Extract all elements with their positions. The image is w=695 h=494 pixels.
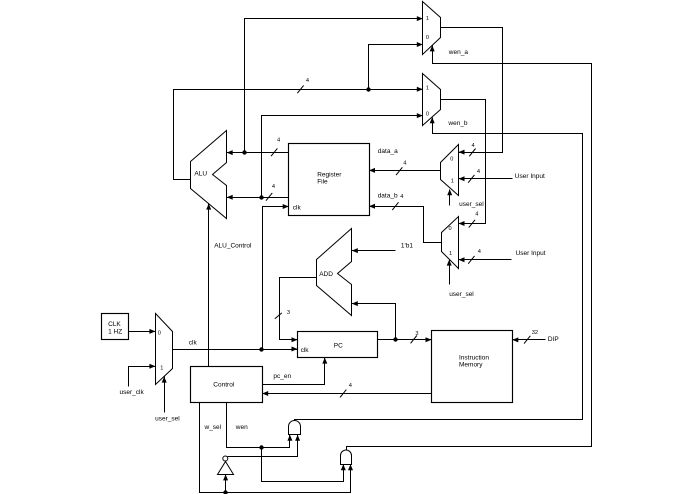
svg-text:user_sel: user_sel — [155, 416, 180, 423]
svg-text:1: 1 — [426, 16, 429, 22]
svg-text:1 HZ: 1 HZ — [108, 328, 122, 335]
label w_sel — [204, 424, 222, 431]
wire constant 1'b1 into ADD — [352, 248, 396, 253]
svg-text:0: 0 — [426, 112, 429, 118]
svg-text:4: 4 — [277, 137, 280, 143]
svg-text:user_sel: user_sel — [449, 291, 474, 298]
svg-text:Instruction: Instruction — [459, 355, 489, 362]
svg-text:data_b: data_b — [378, 192, 398, 199]
svg-text:0: 0 — [450, 157, 453, 163]
svg-text:pc_en: pc_en — [273, 373, 291, 380]
wire user_sel select stub into user mux B — [447, 260, 452, 285]
NOT gate (inverter on w_sel) — [218, 456, 234, 475]
ADD adder unit — [317, 229, 352, 316]
svg-text:User Input: User Input — [515, 173, 545, 180]
wire w_sel branch into NOT gate — [223, 474, 228, 492]
svg-text:4: 4 — [349, 383, 352, 389]
label data_a — [378, 148, 398, 155]
wire wen_a mux output to user mux A input 0 — [441, 28, 503, 157]
svg-text:32: 32 — [532, 330, 538, 336]
mux user-select B — [442, 217, 459, 269]
wire user_clk stub to clk mux input 1 — [129, 364, 156, 387]
wire DIP input to Instruction Memory — [512, 330, 545, 344]
wire user_sel select stub into user mux A — [447, 189, 452, 205]
svg-text:w_sel: w_sel — [204, 424, 222, 431]
label user_sel B — [449, 291, 474, 298]
svg-text:4: 4 — [272, 184, 275, 190]
wire branch to wen_a mux input 0 — [369, 42, 423, 90]
AND gate G1 (wen & ~w_sel) — [289, 421, 301, 435]
svg-text:3: 3 — [287, 310, 290, 316]
wire user mux B output to Register File data_b — [369, 194, 442, 243]
svg-text:ALU: ALU — [194, 171, 207, 178]
svg-text:DIP: DIP — [548, 336, 559, 343]
svg-text:File: File — [317, 178, 328, 185]
label user_clk — [120, 389, 145, 396]
label User Input A — [515, 173, 545, 180]
mux clk select — [156, 314, 173, 385]
label pc_en — [273, 373, 291, 380]
mux wen_b — [423, 74, 441, 126]
block Control unit — [191, 367, 263, 403]
block Instruction Memory — [432, 331, 513, 403]
svg-text:4: 4 — [306, 78, 309, 84]
wire ADD output to PC input — [275, 278, 317, 343]
wire AND G1 output to wen_b mux select — [295, 117, 583, 420]
wire Register File port b to ALU input b — [227, 184, 289, 201]
label data_b — [378, 192, 398, 199]
wire PC output to Instruction Memory — [378, 331, 432, 343]
mux wen_a — [423, 2, 441, 55]
svg-text:4: 4 — [477, 169, 480, 175]
wire user_sel select stub into clk mux — [162, 377, 167, 413]
wire Register File port a to ALU input a — [227, 137, 289, 156]
svg-text:0: 0 — [158, 330, 161, 336]
wire User Input to user mux A input 1 — [459, 169, 513, 183]
wire ALU_Control from Control to ALU — [206, 204, 211, 367]
svg-text:CLK: CLK — [108, 321, 121, 328]
block CLK 1 HZ oscillator — [102, 314, 129, 340]
block Register File — [289, 144, 370, 216]
wire wen branch to AND gate G2 — [262, 448, 346, 482]
svg-text:PC: PC — [334, 343, 343, 350]
svg-text:4: 4 — [472, 143, 475, 149]
mux user-select A — [441, 145, 459, 196]
label wen_b — [447, 120, 468, 127]
svg-text:0: 0 — [426, 35, 429, 41]
svg-text:1: 1 — [426, 86, 429, 92]
svg-text:user_sel: user_sel — [459, 201, 484, 208]
wire pc_en from Control to PC — [263, 358, 328, 385]
label wen_a — [448, 49, 469, 56]
wire CLK oscillator to clk mux input 0 — [129, 329, 156, 334]
wire ALU output to wen_b mux input 1 — [174, 78, 423, 180]
svg-text:Memory: Memory — [459, 362, 483, 369]
wire User Input to user mux B input 1 — [459, 249, 512, 264]
block PC register — [298, 332, 378, 358]
wire clk mux output to PC clk — [173, 347, 298, 352]
wire NOT gate output to AND gate G1 — [228, 435, 301, 457]
svg-text:clk: clk — [301, 347, 310, 354]
wire branch to wen_b mux input 0 — [262, 113, 423, 197]
wire wen_b mux output to user mux B input 0 — [441, 100, 486, 228]
svg-text:user_clk: user_clk — [120, 389, 145, 396]
svg-text:0: 0 — [449, 226, 452, 232]
label ALU_Control — [214, 242, 252, 249]
label User Input B — [516, 250, 546, 257]
wire user mux A output to Register File data_a — [369, 161, 441, 175]
svg-text:4: 4 — [475, 212, 478, 218]
label user_sel clk mux — [155, 416, 180, 423]
svg-text:3: 3 — [415, 331, 418, 337]
label wen — [235, 424, 248, 431]
svg-text:data_a: data_a — [378, 148, 398, 155]
svg-text:wen_b: wen_b — [447, 120, 468, 127]
svg-text:ADD: ADD — [319, 271, 333, 278]
svg-text:User Input: User Input — [516, 250, 546, 257]
svg-text:clk: clk — [189, 340, 198, 347]
svg-text:wen_a: wen_a — [448, 49, 469, 56]
wire clk branch to Register File clk — [262, 204, 289, 350]
svg-text:4: 4 — [403, 161, 406, 167]
wire branch to wen_a mux input 1 — [245, 16, 423, 152]
svg-text:clk: clk — [293, 204, 302, 211]
wire wen from Control to AND gate G1 — [227, 403, 293, 450]
label 1'b1 — [401, 243, 413, 250]
svg-text:ALU_Control: ALU_Control — [214, 242, 252, 249]
svg-text:4: 4 — [478, 249, 481, 255]
wire AND G2 output to wen_a mux select — [347, 45, 592, 450]
svg-text:1: 1 — [451, 178, 454, 184]
wire PC output branch to ADD input — [352, 301, 396, 339]
wire w_sel from Control to AND gate G2 — [200, 403, 354, 494]
ALU unit — [191, 131, 227, 219]
label DIP — [548, 336, 559, 343]
wire instruction word from Instruction Memory to Control — [262, 383, 431, 398]
svg-text:1: 1 — [160, 365, 163, 371]
svg-text:1: 1 — [449, 251, 452, 257]
svg-text:wen: wen — [235, 424, 248, 431]
svg-text:4: 4 — [400, 194, 403, 200]
svg-text:1'b1: 1'b1 — [401, 243, 413, 250]
AND gate G2 (wen & w_sel) — [341, 450, 352, 465]
svg-text:Control: Control — [213, 382, 235, 389]
label clk — [189, 340, 198, 347]
label user_sel A — [459, 201, 484, 208]
